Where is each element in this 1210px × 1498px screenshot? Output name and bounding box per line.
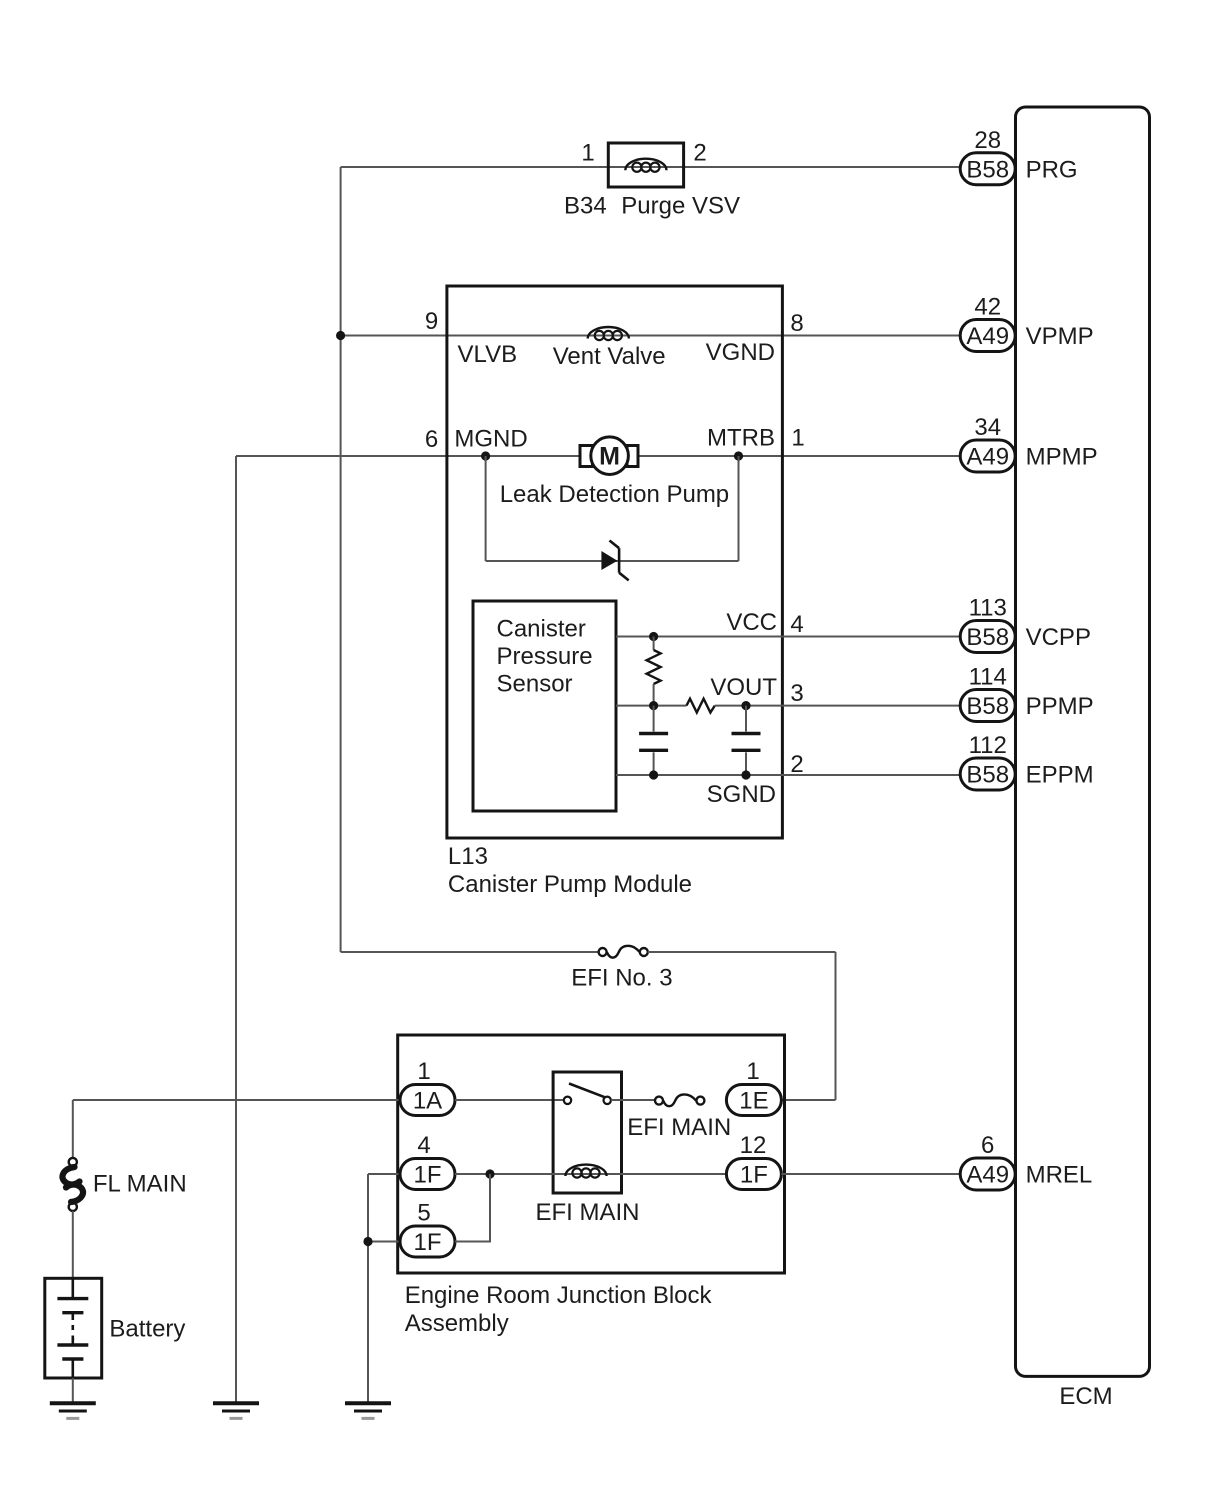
relay coil [565,1165,606,1178]
svg-text:1F: 1F [413,1229,441,1256]
wire: vertical bus from PRG corner down to EFI No.3 fuse [340,167,342,952]
ground G1 below battery [50,1403,96,1418]
diode D1 [601,541,628,581]
wire: MREL net to ECM A49-6 [781,1173,960,1175]
battery BT1 [45,1278,102,1378]
connector oval A49-42 VPMP [960,320,1015,352]
svg-text:6: 6 [425,426,438,453]
fusible link FL MAIN [62,1158,83,1211]
connector oval B58-28 PRG [960,153,1015,185]
svg-text:1F: 1F [413,1162,441,1189]
svg-text:2: 2 [790,751,803,778]
svg-text:42: 42 [974,294,1001,321]
purge VSV B34 box [608,143,683,187]
svg-text:MREL: MREL [1026,1162,1093,1189]
svg-text:MGND: MGND [454,425,527,452]
wire: VOUT net to ECM B58-114 [715,705,960,707]
svg-text:Canister Pump Module: Canister Pump Module [448,871,692,898]
wire: left of 1F-5 [368,1241,400,1243]
connector oval B58-114 PPMP [960,690,1015,722]
svg-text:1A: 1A [413,1088,442,1115]
svg-text:Battery: Battery [109,1316,185,1343]
svg-text:1: 1 [581,140,594,167]
svg-text:EPPM: EPPM [1026,762,1094,789]
ground G3 for junction block [345,1403,391,1418]
svg-text:1: 1 [746,1058,759,1085]
wire: MGND net horizontal to ECM A49-34 [236,455,960,457]
relay switch contacts [564,1084,611,1105]
svg-text:113: 113 [969,595,1007,622]
node junction dot at 490 [485,1169,494,1178]
node junction dot MTRB [734,451,743,460]
relay EFI MAIN box [553,1072,621,1193]
wire: EFI No.3 net left segment [341,951,599,953]
wire: vertical x368 to ground [367,1174,369,1403]
svg-text:A49: A49 [966,1162,1009,1189]
svg-text:1: 1 [417,1058,430,1085]
svg-text:5: 5 [417,1200,430,1227]
svg-text:EFI MAIN: EFI MAIN [627,1114,731,1141]
terminal 1E oval [726,1085,781,1116]
wire: VPMP net from junction to ECM A49-42 [341,335,960,337]
svg-text:34: 34 [974,414,1001,441]
node junction dot on VCC [649,632,658,641]
connector oval A49-6 MREL [960,1158,1015,1190]
wire: left of 1F-4 [368,1173,400,1175]
wire: right leg of diode loop [738,456,740,561]
leak detection pump motor M1 [580,437,638,475]
inductor coil of purge VSV [625,159,666,172]
svg-text:4: 4 [417,1132,430,1159]
svg-text:Canister: Canister [497,616,586,643]
svg-text:B34: B34 [564,193,607,220]
svg-text:L13: L13 [448,843,488,870]
node junction dot SGND left [649,770,658,779]
wire: bottom of diode loop [486,560,739,562]
engine room junction block box [398,1035,785,1273]
node junction dot VOUT right [741,701,750,710]
connector oval B58-113 VCPP [960,621,1015,653]
svg-text:1F: 1F [740,1162,768,1189]
svg-text:2: 2 [693,140,706,167]
terminal 1F pin4 oval [400,1159,455,1190]
svg-text:Engine Room Junction Block: Engine Room Junction Block [405,1282,713,1309]
svg-text:A49: A49 [966,323,1009,350]
svg-text:EFI MAIN: EFI MAIN [536,1199,640,1226]
svg-text:B58: B58 [966,762,1009,789]
terminal 1F pin5 oval [400,1226,455,1257]
node junction dot VOUT left [649,701,658,710]
svg-text:4: 4 [790,611,803,638]
svg-text:3: 3 [790,680,803,707]
svg-text:MPMP: MPMP [1026,444,1098,471]
svg-text:Leak Detection Pump: Leak Detection Pump [500,481,729,508]
svg-text:B58: B58 [966,693,1009,720]
node junction dot on vertical bus at VPMP wire [336,331,345,340]
svg-text:9: 9 [425,308,438,335]
svg-text:VGND: VGND [706,339,775,366]
resistor R1 vertical [647,637,661,706]
wire: battery to ground [72,1378,74,1403]
wire: EFI No.3 to corner [648,951,836,953]
canister pressure sensor box [473,601,616,811]
svg-text:6: 6 [981,1132,994,1159]
svg-text:PRG: PRG [1026,156,1078,183]
svg-text:Assembly: Assembly [405,1310,509,1337]
svg-text:112: 112 [969,732,1007,759]
svg-text:Sensor: Sensor [497,670,573,697]
wire: FL MAIN vertical top [72,1100,74,1158]
node junction dot MGND [481,451,490,460]
svg-text:Purge VSV: Purge VSV [621,193,740,220]
node junction dot SGND right [741,770,750,779]
wire: into 1E terminal [781,1099,836,1101]
svg-text:VCPP: VCPP [1026,624,1091,651]
canister pump module L13 box [447,286,783,838]
svg-text:A49: A49 [966,444,1009,471]
svg-text:PPMP: PPMP [1026,693,1094,720]
svg-text:1E: 1E [739,1088,768,1115]
node junction dot x368 [363,1237,372,1246]
svg-text:M: M [599,443,620,471]
wire: 1F-5 right up to 1F-4 row [455,1174,490,1242]
svg-text:B58: B58 [966,156,1009,183]
fuse EFI No.3 [599,946,648,958]
wire: 1F-4 to relay coil to 1F-12 [455,1173,726,1175]
connector oval B58-112 EPPM [960,758,1015,790]
wire: left leg of diode loop [485,456,487,561]
vent valve inductor coil [588,327,629,340]
ground G2 for MGND [213,1403,259,1418]
svg-text:SGND: SGND [707,781,776,808]
wire: VCC net to ECM B58-113 [616,636,960,638]
svg-text:MTRB: MTRB [707,424,775,451]
svg-text:Pressure: Pressure [497,643,593,670]
terminal 1A oval [400,1085,455,1116]
wire: FL MAIN to battery [72,1211,74,1278]
fuse EFI MAIN [655,1094,704,1106]
svg-text:12: 12 [740,1132,767,1159]
wire: VOUT net from sensor to resistor [616,705,687,707]
wire: vertical down to 1E [835,952,837,1100]
wire: relay switch to fuse EFI MAIN [611,1099,655,1101]
wire: SGND net to ECM B58-112 [616,774,960,776]
svg-text:Vent Valve: Vent Valve [553,343,666,370]
svg-text:VOUT: VOUT [710,674,777,701]
wire: PRG net horizontal from corner to Purge VSV pin 1 [341,166,961,168]
svg-text:VLVB: VLVB [458,341,518,368]
terminal 1F pin12 oval [726,1159,781,1190]
svg-text:1: 1 [791,424,804,451]
wire: MGND vertical down to ground [235,456,237,1403]
wire: battery net to 1A [73,1099,400,1101]
capacitor C2 [732,706,761,775]
svg-text:B58: B58 [966,624,1009,651]
ECM U1 box [1016,107,1150,1376]
svg-text:EFI No. 3: EFI No. 3 [571,965,672,992]
svg-text:VCC: VCC [726,609,777,636]
svg-text:VPMP: VPMP [1026,323,1094,350]
svg-text:FL MAIN: FL MAIN [93,1171,187,1198]
capacitor C1 [639,706,668,775]
svg-text:114: 114 [969,664,1007,691]
svg-text:28: 28 [974,127,1001,154]
svg-text:8: 8 [790,310,803,337]
svg-text:ECM: ECM [1059,1383,1112,1410]
resistor R2 horizontal [687,699,715,713]
connector oval A49-34 MPMP [960,440,1015,472]
wire: 1A to relay switch [455,1099,564,1101]
